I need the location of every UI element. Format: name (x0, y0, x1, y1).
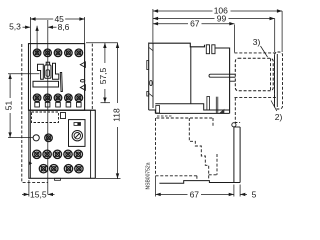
rear bottom edge (155, 104, 229, 110)
svg-text:99: 99 (217, 14, 227, 24)
actuator shape center body (45, 65, 51, 78)
contactor bottom edge (155, 112, 229, 114)
mounting plate edge line (29, 44, 31, 111)
overload relay body (29, 110, 95, 178)
svg-text:5: 5 (252, 190, 257, 200)
actuator shape center cap (46, 62, 49, 65)
oval slot (80, 80, 84, 82)
housing joint line (190, 47, 192, 104)
coil neck (230, 73, 236, 75)
relay adjustment dial (72, 131, 82, 141)
front module 2 (275, 52, 283, 109)
svg-text:118: 118 (111, 108, 121, 122)
svg-text:8,6: 8,6 (58, 22, 70, 32)
relay side bottom profile (159, 181, 240, 184)
leader 2) (271, 101, 277, 112)
chimney detail (207, 97, 210, 111)
svg-text:15,5: 15,5 (30, 190, 47, 200)
lever bar (60, 73, 62, 92)
relay bottom foot (55, 178, 61, 180)
dimension 118 (117, 43, 119, 103)
DIN rail strip (148, 43, 150, 111)
svg-text:5,3: 5,3 (9, 22, 21, 32)
dimension 67 bottom (156, 193, 188, 195)
relay side outline (dashed) (156, 118, 214, 181)
hidden outline right (dashed) (91, 44, 93, 111)
dimension 5 (239, 185, 241, 197)
mounting hole centerline vertical (47, 20, 49, 194)
relay dial box (69, 120, 86, 147)
accessory box 3 outer (dashed) (235, 53, 278, 98)
svg-text:51: 51 (4, 101, 14, 111)
label plate (33, 81, 59, 87)
open slot to front edge (209, 74, 230, 77)
bar screw (232, 123, 236, 127)
dimension 106 (153, 10, 213, 12)
terminal screws row 2 (33, 94, 41, 102)
leader 3) (261, 46, 268, 57)
relay label window (dashed) (32, 112, 59, 123)
front accessory bar (233, 127, 235, 183)
accessory box 3 inner (dashed) (235, 58, 273, 91)
contactor body (29, 44, 85, 111)
relay screws row 4 (39, 165, 47, 173)
svg-text:67: 67 (190, 189, 200, 199)
contactor/relay boundary line (29, 109, 95, 111)
relay side staircase (dashed) (189, 118, 208, 180)
hole marker arrow line (36, 26, 38, 53)
actuator shape center inner (46, 70, 49, 77)
svg-text:57,5: 57,5 (98, 67, 108, 84)
hidden coil outline below (dashed) (235, 98, 240, 123)
dimension 15,5 (28, 180, 30, 197)
svg-text:3): 3) (253, 37, 261, 47)
interface dashes (157, 115, 172, 117)
actuator shape right (53, 63, 59, 79)
relay left inner line (29, 110, 31, 178)
relay small box (61, 113, 66, 119)
relay side marker arrow (29, 162, 32, 165)
svg-text:2): 2) (275, 112, 283, 122)
reset hole (33, 135, 39, 141)
triangle marker upper (80, 62, 85, 68)
hidden outline left (dashed) (22, 44, 48, 182)
relay inner vertical line (90, 110, 92, 178)
svg-text:NSB00752a: NSB00752a (146, 162, 152, 189)
dimension 51 (9, 74, 11, 98)
terminal windows below row 2 (35, 102, 40, 107)
dimension 99 (153, 18, 215, 20)
terminal screws row 1 (33, 49, 41, 57)
top comb slots (206, 45, 209, 54)
relay screws row 3 (33, 150, 41, 158)
dimension 45 (30, 18, 53, 20)
actuator shape left (38, 64, 44, 79)
side view main body outline (149, 43, 230, 113)
reset screw (45, 134, 53, 142)
triangle marker lower (80, 85, 85, 91)
dimension 67 top (153, 23, 188, 25)
svg-text:67: 67 (190, 19, 200, 29)
dimension 57,5 (86, 42, 118, 44)
relay class window (74, 123, 81, 126)
